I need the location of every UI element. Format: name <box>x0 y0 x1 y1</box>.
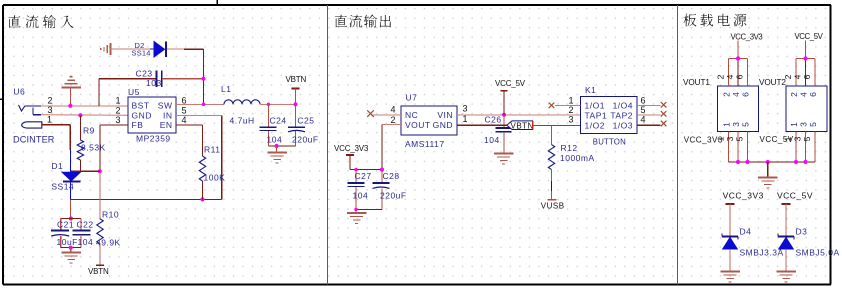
svg-text:2: 2 <box>568 105 574 115</box>
svg-text:TAP1: TAP1 <box>585 111 608 121</box>
svg-text:EN: EN <box>160 120 173 130</box>
svg-text:2: 2 <box>722 92 732 97</box>
svg-text:C21: C21 <box>57 219 74 229</box>
svg-text:220uF: 220uF <box>380 190 407 200</box>
svg-text:1: 1 <box>568 95 574 105</box>
svg-text:5: 5 <box>735 136 745 141</box>
svg-text:1: 1 <box>115 96 121 106</box>
svg-text:AMS1117: AMS1117 <box>405 139 445 149</box>
svg-text:VCC_5V: VCC_5V <box>777 191 813 201</box>
svg-text:6: 6 <box>735 74 745 79</box>
svg-text:104: 104 <box>353 190 369 200</box>
svg-text:VOUT1: VOUT1 <box>683 78 710 87</box>
svg-text:3: 3 <box>47 105 53 115</box>
svg-text:100K: 100K <box>204 173 226 183</box>
svg-text:GND: GND <box>132 110 152 120</box>
svg-text:2: 2 <box>789 92 799 97</box>
svg-text:1: 1 <box>722 122 732 127</box>
svg-text:4: 4 <box>641 115 647 125</box>
svg-text:VCC_5V: VCC_5V <box>495 79 526 88</box>
svg-text:6: 6 <box>808 92 818 97</box>
svg-text:2: 2 <box>716 74 726 79</box>
svg-text:C24: C24 <box>270 115 287 125</box>
svg-text:U7: U7 <box>406 93 418 103</box>
svg-text:C23: C23 <box>136 69 153 79</box>
svg-text:U6: U6 <box>13 87 25 97</box>
svg-text:SW: SW <box>158 101 173 111</box>
svg-text:DCINTER: DCINTER <box>13 135 55 145</box>
svg-text:C26: C26 <box>485 115 502 125</box>
svg-text:GND: GND <box>433 120 453 130</box>
svg-text:C28: C28 <box>383 171 400 181</box>
svg-text:SS14: SS14 <box>51 182 74 192</box>
svg-text:3: 3 <box>793 136 803 141</box>
svg-text:BST: BST <box>132 101 150 111</box>
svg-text:3: 3 <box>463 104 469 114</box>
svg-text:6: 6 <box>641 95 647 105</box>
svg-text:3: 3 <box>731 122 741 127</box>
svg-text:1/O3: 1/O3 <box>613 120 633 130</box>
svg-text:R12: R12 <box>561 143 578 153</box>
svg-text:104: 104 <box>484 135 500 145</box>
svg-text:TAP2: TAP2 <box>610 111 633 121</box>
svg-text:SMBJ5.0A: SMBJ5.0A <box>796 248 840 258</box>
svg-text:2: 2 <box>390 115 396 125</box>
svg-text:3: 3 <box>799 122 809 127</box>
svg-text:IN: IN <box>163 110 173 120</box>
svg-text:VOUT: VOUT <box>405 120 431 130</box>
svg-text:4: 4 <box>793 74 803 79</box>
svg-text:104: 104 <box>267 135 283 145</box>
svg-text:5: 5 <box>641 105 647 115</box>
svg-text:10uF: 10uF <box>57 237 78 247</box>
svg-text:SS14: SS14 <box>132 48 151 57</box>
svg-text:104: 104 <box>78 237 94 247</box>
svg-text:C22: C22 <box>77 219 94 229</box>
svg-text:VCC_3V3: VCC_3V3 <box>731 33 763 42</box>
svg-text:4: 4 <box>731 92 741 97</box>
svg-text:VBTN: VBTN <box>88 267 109 276</box>
svg-text:5: 5 <box>802 136 812 141</box>
svg-text:NC: NC <box>405 110 418 120</box>
svg-text:4: 4 <box>182 115 188 125</box>
svg-text:1: 1 <box>47 115 53 125</box>
svg-text:1/O1: 1/O1 <box>585 101 605 111</box>
svg-text:FB: FB <box>132 120 144 130</box>
svg-text:2: 2 <box>115 105 121 115</box>
svg-text:220uF: 220uF <box>292 135 319 145</box>
svg-text:1/O2: 1/O2 <box>585 120 605 130</box>
svg-text:1000mA: 1000mA <box>560 153 595 163</box>
svg-text:R9: R9 <box>83 126 95 136</box>
svg-text:3: 3 <box>725 136 735 141</box>
svg-text:VBTN: VBTN <box>286 75 307 84</box>
svg-text:VCC_5V: VCC_5V <box>795 32 824 41</box>
svg-text:5: 5 <box>741 122 751 127</box>
svg-text:VCC_3V3: VCC_3V3 <box>723 191 764 201</box>
svg-text:C25: C25 <box>297 115 314 125</box>
svg-text:MP2359: MP2359 <box>136 134 171 144</box>
svg-text:VCC_3V3: VCC_3V3 <box>684 136 723 145</box>
svg-text:L1: L1 <box>221 84 231 94</box>
svg-text:5: 5 <box>808 122 818 127</box>
svg-text:103: 103 <box>146 78 162 88</box>
svg-text:VBTN: VBTN <box>511 121 534 130</box>
svg-text:3: 3 <box>568 115 574 125</box>
svg-text:2: 2 <box>47 96 53 106</box>
svg-text:D3: D3 <box>796 227 808 237</box>
svg-text:1: 1 <box>789 122 799 127</box>
svg-text:5: 5 <box>182 105 188 115</box>
svg-text:BUTTON: BUTTON <box>593 138 626 147</box>
svg-text:VUSB: VUSB <box>541 201 565 210</box>
svg-text:4.7uH: 4.7uH <box>230 116 255 126</box>
svg-text:3: 3 <box>115 115 121 125</box>
svg-text:1/O4: 1/O4 <box>613 101 633 111</box>
svg-text:4: 4 <box>725 74 735 79</box>
svg-text:D4: D4 <box>740 227 752 237</box>
svg-text:6: 6 <box>802 74 812 79</box>
svg-text:VCC_5V: VCC_5V <box>760 135 794 144</box>
svg-text:C27: C27 <box>355 171 372 181</box>
svg-text:D1: D1 <box>51 161 63 171</box>
svg-text:6: 6 <box>741 92 751 97</box>
svg-text:1: 1 <box>463 114 469 124</box>
svg-text:4: 4 <box>390 105 396 115</box>
svg-text:K1: K1 <box>585 85 596 95</box>
svg-text:49.9K: 49.9K <box>96 238 121 248</box>
svg-text:VIN: VIN <box>437 110 453 120</box>
svg-text:VCC_3V3: VCC_3V3 <box>334 144 369 153</box>
svg-text:VOUT2: VOUT2 <box>759 78 786 87</box>
svg-text:R11: R11 <box>204 145 220 155</box>
svg-text:4: 4 <box>799 92 809 97</box>
svg-text:8.53K: 8.53K <box>81 143 106 153</box>
svg-text:U5: U5 <box>128 87 140 97</box>
svg-text:SMBJ3.3A: SMBJ3.3A <box>740 248 784 258</box>
svg-text:R10: R10 <box>102 210 119 220</box>
